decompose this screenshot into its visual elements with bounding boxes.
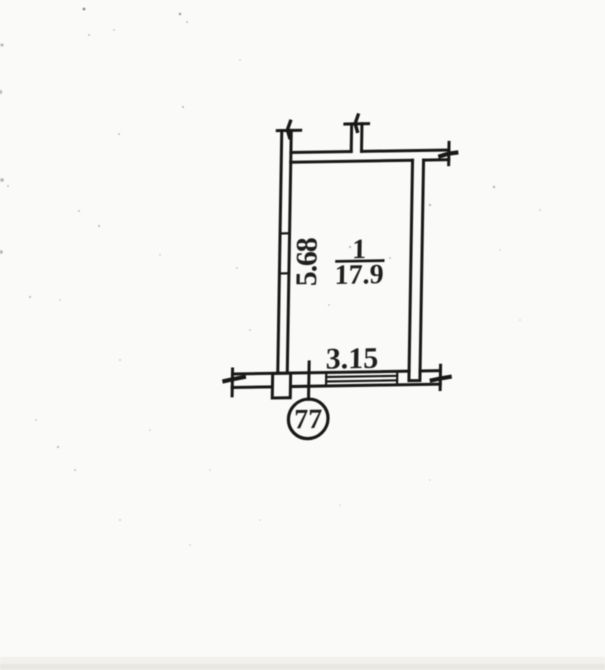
floor plan drawing (sheared slightly to mimic scan skew) [223,113,456,440]
texts (sheared with same matrix) [288,234,385,436]
top wall upper line right segment [362,150,449,151]
leader line to room stamp [307,362,311,399]
bottom-left break tick [224,377,243,381]
bottom-right break tick [432,377,450,380]
top wall lower line [291,160,413,162]
top-right break tick [440,153,456,156]
left wall outer line [278,131,282,374]
window right cap [396,371,398,385]
window line 1 [326,376,397,377]
top stub wall left line [350,124,353,152]
bottom-left break bar [231,369,234,396]
left wall inner line [287,130,291,373]
bottom paper edge shading [0,657,605,670]
svg-text:77: 77 [294,404,323,435]
top-left break bar [277,129,300,132]
bottom wall top line right stub [420,369,440,372]
scan speckles [0,8,541,546]
bottom-right break bar [439,365,442,389]
top-middle break bar [345,122,369,125]
bottom wall bottom line left segment [232,385,272,389]
svg-text:17.9: 17.9 [334,259,384,291]
window line 2 [326,380,397,381]
svg-text:3.15: 3.15 [325,342,378,376]
top wall lower line right stub [424,158,449,161]
svg-text:5.68: 5.68 [290,238,324,286]
room stamp circle 77 [288,399,328,439]
fraction bar of room label [337,259,384,263]
top stub wall right line [360,124,363,152]
right wall (U shaped, closed at bottom) [409,160,424,381]
bottom wall top line [232,371,409,374]
window left cap [325,372,327,386]
top wall upper line left segment [291,150,351,154]
bottom wall bottom line right segment [290,384,440,386]
top-right break bar [447,142,450,164]
top-middle break tick [355,115,358,131]
top-left break tick [287,121,290,137]
left wall tick lower [279,272,289,274]
left wall tick upper [280,232,290,234]
pier / column [272,373,290,398]
